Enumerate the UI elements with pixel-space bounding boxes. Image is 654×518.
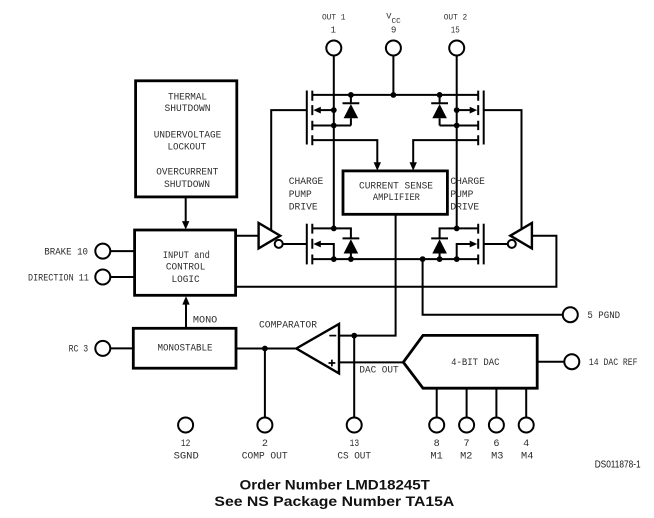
junction dot OUT2 / Q2 body xyxy=(454,107,460,113)
wire bottom source rail xyxy=(312,258,478,260)
terminal pin 6 M3 xyxy=(489,418,504,433)
svg-text:DRIVE: DRIVE xyxy=(450,203,479,214)
terminal pin 10 BRAKE xyxy=(95,244,110,259)
svg-text:CONTROL: CONTROL xyxy=(166,263,206,274)
svg-text:DIRECTION 11: DIRECTION 11 xyxy=(28,273,89,284)
junction dot bottom rail / PGND tap xyxy=(420,256,426,262)
wire logic box to right driver input xyxy=(236,236,557,287)
terminal pin 12 SGND xyxy=(178,418,193,433)
svg-text:1: 1 xyxy=(331,25,337,36)
terminal pin 14 DAC REF xyxy=(564,354,579,369)
comparator plus sign xyxy=(329,360,336,367)
svg-text:Order Number LMD18245T: Order Number LMD18245T xyxy=(240,477,431,493)
transistor Q3 body stub wire xyxy=(320,244,333,259)
terminal pin 8 M1 xyxy=(429,418,444,433)
wire Q3 gate lead from driver bubble xyxy=(283,243,307,245)
junction dot bottom rail / D3 anode xyxy=(348,256,354,262)
terminal pin 5 PGND xyxy=(563,307,578,322)
svg-text:M1: M1 xyxy=(430,452,442,463)
svg-text:CHARGE: CHARGE xyxy=(450,177,485,188)
svg-text:LOCKOUT: LOCKOUT xyxy=(167,143,206,154)
wire DAC to M3 terminal xyxy=(495,388,497,417)
svg-text:CURRENT SENSE: CURRENT SENSE xyxy=(359,182,433,193)
block INPUT and CONTROL LOGIC box xyxy=(135,230,236,295)
svg-text:M3: M3 xyxy=(491,452,503,463)
wire top VCC rail xyxy=(312,94,478,96)
transistor Q4 bottom-right DMOS gate bar xyxy=(483,224,485,265)
svg-text:UNDERVOLTAGE: UNDERVOLTAGE xyxy=(154,130,222,141)
terminal pin 11 DIRECTION xyxy=(95,270,110,285)
block 4-BIT DAC pentagon xyxy=(403,335,537,388)
svg-text:OUT 2: OUT 2 xyxy=(444,12,468,22)
junction dot OUT1 / Q3 drain xyxy=(331,226,337,232)
diode D2 triangle xyxy=(432,104,447,118)
svg-text:PUMP: PUMP xyxy=(289,190,312,201)
terminal pin 9 VCC xyxy=(386,41,401,56)
wire Q2 gate lead to driver xyxy=(484,110,522,229)
svg-text:CHARGE: CHARGE xyxy=(289,177,324,188)
transistor Q1 body arrow xyxy=(313,107,321,114)
wire OUT2 vertical (pin 15 to H-bridge) xyxy=(456,56,458,229)
diode D1 cathode bar xyxy=(343,102,360,104)
svg-text:OVERCURRENT: OVERCURRENT xyxy=(156,168,218,179)
wire DIRECTION terminal to logic box xyxy=(110,276,134,278)
svg-text:COMPARATOR: COMPARATOR xyxy=(259,320,317,331)
svg-text:9: 9 xyxy=(391,25,397,36)
svg-text:OUT 1: OUT 1 xyxy=(322,12,345,22)
transistor Q1 top-left DMOS gate bar xyxy=(306,91,308,145)
wire logic box to left driver input xyxy=(236,235,259,237)
diode D3 triangle xyxy=(344,239,359,253)
svg-text:MONOSTABLE: MONOSTABLE xyxy=(157,343,212,354)
junction dot monostable output / COMP OUT xyxy=(262,346,268,352)
arrowhead MONO into logic box xyxy=(182,296,189,304)
wire current sense amplifier output to comparator minus input xyxy=(339,214,396,335)
junction dot OUT1 / Q1 body xyxy=(331,107,337,113)
svg-text:AMPLIFIER: AMPLIFIER xyxy=(373,193,420,204)
junction dot top rail / D2 cathode xyxy=(437,92,443,98)
wire DAC to M4 terminal xyxy=(525,388,527,417)
diode D2 leads xyxy=(439,95,441,126)
svg-text:INPUT and: INPUT and xyxy=(163,250,210,262)
wire Q1 sense tap into current sense amplifier xyxy=(312,140,377,163)
junction dot top rail / VCC xyxy=(391,92,397,98)
svg-text:See NS Package Number TA15A: See NS Package Number TA15A xyxy=(214,493,454,509)
block thermal/undervoltage/overcurrent box xyxy=(136,81,237,197)
svg-text:12: 12 xyxy=(181,439,191,450)
wire COMP OUT tap down to pin 2 xyxy=(264,349,266,418)
diode D4 triangle xyxy=(432,239,447,253)
wire BRAKE terminal to logic box xyxy=(110,250,134,252)
transistor Q2 body stub wire xyxy=(457,109,470,111)
transistor Q2 body arrow xyxy=(470,107,478,114)
wire OUT1 vertical (pin 1 to H-bridge) xyxy=(333,56,335,229)
svg-text:M2: M2 xyxy=(460,452,472,463)
svg-text:14 DAC REF: 14 DAC REF xyxy=(589,358,638,369)
transistor Q2 source stub xyxy=(440,125,479,127)
wire DAC to M1 terminal xyxy=(436,388,438,417)
wire Q1 gate lead to driver xyxy=(271,110,307,231)
wire bottom rail to PGND pin 5 xyxy=(423,259,563,315)
transistor Q4 body stub wire xyxy=(457,244,470,259)
wire thermal box to logic box with arrowhead xyxy=(185,197,187,222)
transistor Q3 body arrow xyxy=(313,241,321,248)
junction dot comparator minus / CS OUT xyxy=(351,333,357,339)
svg-text:COMP OUT: COMP OUT xyxy=(242,452,288,463)
wire comparator plus input to DAC xyxy=(339,361,403,363)
terminal pin 4 M4 xyxy=(519,418,534,433)
transistor Q1 channel segments xyxy=(311,91,313,146)
svg-text:6: 6 xyxy=(493,439,499,450)
junction dot bottom rail / Q3 body xyxy=(331,256,337,262)
svg-text:DAC OUT: DAC OUT xyxy=(359,365,398,376)
junction dot bottom rail / Q4 body xyxy=(454,256,460,262)
svg-text:BRAKE 10: BRAKE 10 xyxy=(44,247,88,258)
diode D4 anode lead xyxy=(439,254,441,260)
svg-text:MONO: MONO xyxy=(193,316,217,327)
svg-text:RC 3: RC 3 xyxy=(69,345,89,356)
junction dot bottom rail / D4 anode xyxy=(437,256,443,262)
diode D3 cathode bar xyxy=(343,237,360,239)
wire VCC vertical (pin 9 to top rail) xyxy=(392,56,394,95)
comparator U3 triangle xyxy=(296,324,339,373)
diode D3 anode lead xyxy=(350,254,352,260)
terminal pin 7 M2 xyxy=(459,418,474,433)
transistor Q4 channel segments xyxy=(477,224,479,265)
svg-text:15: 15 xyxy=(451,25,460,36)
wire Q2 sense tap into current sense amplifier xyxy=(413,140,478,163)
diode D1 lead top xyxy=(350,95,352,126)
junction dot OUT2 / Q4 drain xyxy=(454,226,460,232)
wire DAC to M2 terminal xyxy=(466,388,468,417)
svg-text:PUMP: PUMP xyxy=(450,190,473,201)
svg-text:2: 2 xyxy=(262,439,268,450)
inverter bubble U2 xyxy=(508,240,516,248)
svg-text:4: 4 xyxy=(523,439,529,450)
wire CS OUT tap down to pin 13 xyxy=(353,336,355,418)
transistor Q4 body arrow xyxy=(470,241,478,248)
block MONOSTABLE box xyxy=(133,328,236,368)
transistor Q2 top-right DMOS gate bar xyxy=(483,91,485,145)
block CURRENT SENSE AMPLIFIER box xyxy=(343,171,447,214)
op-amp U2 right charge pump driver triangle xyxy=(510,223,532,248)
transistor Q1 source stub xyxy=(312,125,351,127)
diode D1 triangle xyxy=(344,104,359,118)
svg-text:4-BIT DAC: 4-BIT DAC xyxy=(451,358,499,369)
junction dot OUT1 / Q1 source xyxy=(331,123,337,129)
arrowhead into amplifier (right) xyxy=(410,162,417,170)
wire monostable output to comparator xyxy=(236,348,296,350)
svg-text:SGND: SGND xyxy=(174,452,199,463)
terminal pin 13 CS OUT xyxy=(347,418,362,433)
transistor Q2 channel segments xyxy=(477,91,479,146)
wire RC terminal to monostable xyxy=(110,347,133,349)
diode D4 cathode bar xyxy=(431,237,448,239)
svg-text:7: 7 xyxy=(464,439,470,450)
junction dot top rail / D1 cathode xyxy=(348,92,354,98)
svg-text:8: 8 xyxy=(434,439,440,450)
arrowhead into amplifier (left) xyxy=(374,162,381,170)
transistor Q4 drain stub and diode corner xyxy=(440,228,479,238)
comparator minus sign xyxy=(329,335,336,337)
terminal pin 3 RC xyxy=(95,341,110,356)
svg-text:CS OUT: CS OUT xyxy=(337,452,371,463)
svg-text:5 PGND: 5 PGND xyxy=(587,311,620,322)
wire DAC to DAC REF pin 14 xyxy=(537,361,564,363)
svg-text:M4: M4 xyxy=(521,452,533,463)
svg-text:LOGIC: LOGIC xyxy=(172,275,200,286)
terminal pin 15 OUT2 xyxy=(449,41,464,56)
diode D2 cathode bar xyxy=(431,102,448,104)
arrowhead into logic box xyxy=(182,221,189,229)
svg-text:DRIVE: DRIVE xyxy=(289,203,318,214)
terminal pin 1 OUT1 xyxy=(326,41,341,56)
op-amp U1 left charge pump driver triangle xyxy=(259,223,281,248)
inverter bubble U1 xyxy=(275,240,283,248)
transistor Q3 channel segments xyxy=(311,224,313,265)
svg-text:THERMAL: THERMAL xyxy=(168,93,207,104)
transistor Q3 drain stub and diode corner xyxy=(312,228,351,238)
wire Q4 gate lead from driver bubble xyxy=(484,243,508,245)
junction dot OUT2 / Q2 source xyxy=(454,123,460,129)
svg-text:13: 13 xyxy=(350,439,360,450)
svg-text:SHUTDOWN: SHUTDOWN xyxy=(164,180,210,191)
svg-text:DS011878-1: DS011878-1 xyxy=(595,460,641,471)
terminal pin 2 COMP OUT xyxy=(257,418,272,433)
transistor Q1 body stub wire xyxy=(320,109,333,111)
wire MONO monostable to logic box xyxy=(185,304,187,329)
transistor Q3 bottom-left DMOS gate bar xyxy=(306,224,308,265)
svg-text:SHUTDOWN: SHUTDOWN xyxy=(164,104,210,115)
